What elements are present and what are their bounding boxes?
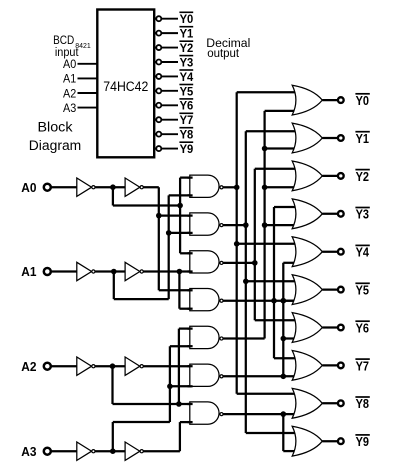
- wire bus 2 to Y5 OR top input: [246, 280, 298, 282]
- junction bus 5 to Y2: [262, 185, 268, 191]
- input terminal A0: [44, 184, 51, 191]
- wire A3-bar horizontal: [113, 421, 170, 423]
- junction A2 inverter tap: [110, 363, 116, 369]
- block output inversion bubble Y0: [156, 16, 161, 21]
- svg-text:Y7: Y7: [180, 113, 194, 127]
- output terminal Y1: [338, 135, 344, 141]
- svg-text:Y0: Y0: [180, 12, 194, 26]
- wire bus 2 to Y9 OR top input: [246, 432, 298, 434]
- wire bus 5 to Y0 OR bottom input: [265, 110, 298, 112]
- junction gate 7 output drop to Y9: [281, 411, 287, 417]
- gate G2 top input stub tip: [188, 214, 193, 216]
- gate G3 top input stub tip: [188, 252, 193, 254]
- wire A2-bar horizontal: [113, 403, 179, 405]
- output label Y1 (active-low): [355, 131, 369, 133]
- svg-text:Block: Block: [38, 119, 73, 134]
- output terminal Y7: [338, 363, 344, 369]
- svg-text:Y9: Y9: [180, 142, 194, 156]
- block output label Y8 (active-low): [179, 127, 193, 129]
- wire A3 to gate 7 bottom input: [180, 421, 191, 423]
- bus 6 (gate 6 term) vertical: [282, 263, 284, 377]
- wire bus 2 to Y1 OR top input: [246, 130, 298, 132]
- OR gate for output Y9: [292, 426, 322, 456]
- gate G5 bottom input stub tip: [188, 345, 193, 347]
- junction gate 3 output on bus 3: [252, 260, 258, 266]
- block input stub A1: [78, 77, 98, 79]
- svg-text:Y1: Y1: [356, 132, 369, 146]
- wire A0 terminal to inverter 1a: [47, 186, 77, 188]
- wire A1-bar to gate 2 bottom input: [169, 232, 191, 234]
- wire bus 6 to Y6 OR bottom input: [283, 337, 298, 339]
- junction A2-bar to gate 7: [176, 401, 182, 407]
- wire A1 inverter 2b output to gate 3 bottom input: [142, 270, 191, 272]
- block output label Y3 (active-low): [179, 55, 193, 57]
- inverter U1a (input A0): [77, 178, 92, 196]
- junction A1 true tap: [177, 269, 183, 275]
- block output inversion bubble Y2: [156, 45, 161, 50]
- input terminal A2: [44, 363, 51, 370]
- svg-text:A1: A1: [63, 72, 76, 86]
- block output wire Y1: [154, 32, 178, 34]
- svg-text:Y8: Y8: [180, 128, 194, 142]
- output label Y0 (active-low): [355, 93, 369, 95]
- svg-text:Y3: Y3: [180, 55, 194, 69]
- wire A0 to gate 4 top input: [159, 289, 191, 291]
- block output label Y1 (active-low): [179, 26, 193, 28]
- gate G4 top input stub tip: [188, 289, 193, 291]
- wire gate 7 output (continues to Y8 OR bottom input): [221, 413, 298, 415]
- inverter U3b (input A2): [125, 357, 140, 375]
- inverter U4b (input A3): [125, 442, 140, 460]
- svg-text:Y2: Y2: [180, 41, 194, 55]
- wire A1 true vertical: [178, 272, 180, 309]
- wire A1 terminal to inverter 2a: [47, 270, 77, 272]
- output terminal Y4: [338, 249, 344, 255]
- output label Y4 (active-low): [355, 244, 369, 246]
- gate G2 bottom input stub tip: [188, 232, 193, 234]
- block input stub A2: [78, 92, 98, 94]
- junction A1-bar to gate 2: [166, 230, 172, 236]
- svg-text:A0: A0: [21, 180, 36, 195]
- OR gate for output Y0: [292, 85, 322, 115]
- junction A3 inverter tap: [110, 448, 116, 454]
- svg-text:A2: A2: [21, 359, 36, 374]
- block output inversion bubble Y5: [156, 88, 161, 93]
- wire bus 3 to Y6 OR top input: [255, 319, 298, 321]
- wire A3 true vertical: [179, 422, 181, 451]
- output terminal Y2: [338, 173, 344, 179]
- svg-text:A0: A0: [63, 57, 76, 71]
- OR gate for output Y3: [292, 199, 322, 229]
- OR gate for output Y6: [292, 313, 322, 343]
- wire A2 inverter 3b output to gate 6 top input: [142, 365, 191, 367]
- svg-text:Y1: Y1: [180, 27, 194, 41]
- svg-text:Y9: Y9: [356, 435, 369, 449]
- svg-text:input: input: [55, 45, 79, 59]
- svg-text:Y4: Y4: [180, 70, 194, 84]
- block output wire Y9: [154, 148, 178, 150]
- junction bus 6 to Y6: [281, 336, 287, 342]
- wire Y6 OR output to terminal: [322, 326, 341, 328]
- wire A0 inverter 1a to inverter 1b: [94, 186, 125, 188]
- wire A1 inverter 2a to inverter 2b: [94, 270, 125, 272]
- block output label Y9 (active-low): [179, 141, 193, 143]
- block output wire Y5: [154, 90, 178, 92]
- wire to Y9 OR bottom input: [283, 450, 298, 452]
- svg-text:Y6: Y6: [356, 321, 369, 335]
- bus 1 (gate 1 term) vertical: [236, 92, 238, 394]
- OR gate for output Y7: [292, 351, 322, 381]
- svg-text:Y4: Y4: [356, 246, 369, 260]
- svg-text:Y2: Y2: [356, 170, 369, 184]
- block output wire Y2: [154, 47, 178, 49]
- wire A3-bar vertical: [169, 346, 171, 422]
- wire A0-bar to gate 3 top input: [180, 252, 191, 254]
- inverter U2b (input A1): [125, 262, 140, 280]
- output label Y7 (active-low): [355, 358, 369, 360]
- wire Y8 OR output to terminal: [322, 402, 341, 404]
- wire A0-bar drop: [112, 187, 114, 205]
- block output label Y7 (active-low): [179, 112, 193, 114]
- gate G1 top input stub tip: [188, 176, 193, 178]
- svg-text:Y5: Y5: [180, 84, 194, 98]
- wire bus 1 to Y4 OR top input: [237, 243, 298, 245]
- wire gate 1 output to bus 1: [221, 186, 236, 188]
- output terminal Y6: [338, 325, 344, 331]
- wire A1 to gate 4 bottom input: [179, 308, 191, 310]
- wire A0-bar horizontal: [113, 204, 180, 206]
- output label Y3 (active-low): [355, 207, 369, 209]
- block output label Y6 (active-low): [179, 98, 193, 100]
- block output inversion bubble Y7: [156, 117, 161, 122]
- junction gate 6 output on bus 6: [281, 374, 287, 380]
- wire Y7 OR output to terminal: [322, 364, 341, 366]
- junction gate 1 output on bus 1: [234, 185, 240, 191]
- inverter U3a (input A2): [77, 357, 92, 375]
- output label Y9 (active-low): [355, 434, 369, 436]
- block output wire Y6: [154, 104, 178, 106]
- svg-text:Y8: Y8: [356, 397, 369, 411]
- wire bus 5 to Y2 OR bottom input: [265, 186, 298, 188]
- output terminal Y3: [338, 211, 344, 217]
- wire A0-bar vertical: [179, 178, 181, 254]
- junction on gate 4 output line at bus 6: [281, 298, 287, 304]
- bus 4 (gate 4 term) vertical: [273, 207, 275, 358]
- wire A1-bar horizontal: [114, 298, 169, 300]
- wire Y9 OR output to terminal: [322, 440, 341, 442]
- wire A1-bar vertical: [168, 195, 170, 299]
- block output inversion bubble Y3: [156, 59, 161, 64]
- wire gate 3 output to bus 3: [221, 262, 255, 264]
- wire A0 to gate 2 top input: [159, 214, 191, 216]
- svg-text:Y6: Y6: [180, 99, 194, 113]
- junction bus 1 to Y4: [234, 241, 240, 247]
- wire bus 6 to Y5 OR bottom input stub: [283, 300, 298, 302]
- wire A1-bar drop: [113, 272, 115, 300]
- NAND gate G3: [190, 251, 219, 273]
- junction A0-bar vertical tap: [177, 203, 183, 209]
- gate G7 top input stub tip: [188, 403, 193, 405]
- svg-text:Y3: Y3: [356, 208, 369, 222]
- svg-text:74HC42: 74HC42: [103, 79, 148, 94]
- NAND gate G6: [190, 364, 219, 386]
- svg-text:A3: A3: [21, 444, 36, 459]
- wire A3-bar to gate 5 bottom input: [170, 345, 191, 347]
- block output inversion bubble Y6: [156, 103, 161, 108]
- output terminal Y9: [338, 438, 344, 444]
- bus 2 (gate 2 term) vertical: [245, 131, 247, 433]
- NAND gate G1: [190, 175, 219, 197]
- wire gate 7 term drop to Y9: [282, 414, 284, 451]
- wire A0 inverter 1b output: [142, 186, 159, 188]
- gate G6 bottom input stub tip: [188, 385, 193, 387]
- svg-text:Y0: Y0: [356, 94, 369, 108]
- output terminal Y0: [338, 97, 344, 103]
- OR gate for output Y8: [292, 388, 322, 418]
- gate G3 bottom input stub tip: [188, 270, 193, 272]
- svg-text:A2: A2: [63, 86, 76, 100]
- gate G1 bottom input stub tip: [188, 194, 193, 196]
- svg-text:A3: A3: [63, 101, 76, 115]
- NAND gate G4: [190, 289, 219, 311]
- junction gate 4 output on bus 4: [271, 298, 277, 304]
- inverter U4a (input A3): [77, 442, 92, 460]
- output label Y5 (active-low): [355, 282, 369, 284]
- wire bus 1 to Y0 OR top input: [237, 91, 298, 93]
- gate G5 top input stub tip: [188, 327, 193, 329]
- wire A2 inverter 3a to inverter 3b: [94, 365, 125, 367]
- gate G6 top input stub tip: [188, 365, 193, 367]
- OR gate for output Y5: [292, 275, 322, 305]
- inverter U1b (input A0): [125, 178, 140, 196]
- wire A2-bar to gate 7 top input: [179, 403, 191, 405]
- block output wire Y0: [154, 18, 178, 20]
- junction A3-bar to gate 6: [167, 384, 173, 390]
- block output label Y4 (active-low): [179, 69, 193, 71]
- bus 3 (gate 3 term) vertical: [254, 169, 256, 321]
- output terminal Y5: [338, 287, 344, 293]
- wire bus 6 to Y4 OR bottom input: [283, 262, 298, 264]
- block output inversion bubble Y4: [156, 74, 161, 79]
- block input stub A0: [78, 63, 98, 65]
- block output label Y2 (active-low): [179, 40, 193, 42]
- svg-text:output: output: [207, 46, 239, 60]
- wire A1-bar to gate 1 bottom input: [169, 194, 191, 196]
- output label Y6 (active-low): [355, 320, 369, 322]
- bus 5 (gate 5 term) vertical: [263, 111, 265, 339]
- NAND gate G2: [190, 213, 219, 235]
- junction bus 6 to Y5: [281, 298, 287, 304]
- output label Y8 (active-low): [355, 396, 369, 398]
- wire bus 4 to Y7 OR top input: [274, 357, 298, 359]
- gate G4 bottom input stub tip: [188, 308, 193, 310]
- wire A2 terminal to inverter 3a: [47, 365, 77, 367]
- wire bus 1 to Y8 OR top input: [237, 393, 298, 395]
- output terminal Y8: [338, 400, 344, 406]
- wire gate 6 output (continues to Y7 OR bottom input): [221, 375, 298, 377]
- block output wire Y8: [154, 133, 178, 135]
- wire A2-bar drop: [111, 366, 113, 404]
- block output inversion bubble Y8: [156, 132, 161, 137]
- wire Y0 OR output to terminal: [322, 99, 341, 101]
- block output wire Y4: [154, 75, 178, 77]
- NAND gate G7: [190, 402, 219, 424]
- wire Y1 OR output to terminal: [322, 137, 341, 139]
- junction A1 inverter tap: [111, 269, 117, 275]
- block output wire Y3: [154, 61, 178, 63]
- block output wire Y7: [154, 119, 178, 121]
- wire bus 5 to Y3 OR bottom input: [265, 224, 298, 226]
- block input stub A3: [78, 107, 98, 109]
- inverter U2a (input A1): [77, 262, 92, 280]
- wire Y5 OR output to terminal: [322, 288, 341, 290]
- junction bus 5 to Y1: [262, 146, 268, 152]
- block diagram IC body 74HC42: [97, 10, 154, 158]
- svg-text:Diagram: Diagram: [29, 138, 82, 153]
- wire bus 4 to Y3 OR top input: [274, 206, 298, 208]
- wire A3-bar to gate 6 bottom input: [170, 385, 191, 387]
- wire A2-bar vertical: [178, 329, 180, 404]
- OR gate for output Y4: [292, 237, 322, 267]
- output label Y2 (active-low): [355, 169, 369, 171]
- wire A3 inverter 4b output: [142, 450, 180, 452]
- input terminal A1: [44, 268, 51, 275]
- wire gate 2 output to bus 2: [221, 224, 246, 226]
- junction A0 inverter tap: [110, 184, 116, 190]
- wire bus 3 to Y2 OR top input: [255, 168, 298, 170]
- OR gate for output Y2: [292, 161, 322, 191]
- svg-text:Y7: Y7: [356, 359, 369, 373]
- wire Y2 OR output to terminal: [322, 175, 341, 177]
- junction bus 2 to Y5: [243, 279, 249, 285]
- wire Y4 OR output to terminal: [322, 251, 341, 253]
- wire A3-bar rise: [112, 422, 114, 451]
- wire A0 true vertical (feeds gates 2 and 4): [158, 187, 160, 290]
- block output inversion bubble Y9: [156, 146, 161, 151]
- junction A0 to gate 2: [156, 213, 162, 219]
- wire Y3 OR output to terminal: [322, 213, 341, 215]
- wire A3 inverter 4a to inverter 4b: [94, 450, 125, 452]
- wire bus 5 to Y1 OR bottom input: [265, 147, 298, 149]
- svg-text:Y5: Y5: [356, 284, 369, 298]
- gate G7 bottom input stub tip: [188, 421, 193, 423]
- block output inversion bubble Y1: [156, 31, 161, 36]
- wire gate 5 output to bus 5: [221, 337, 264, 339]
- NAND gate G5: [190, 326, 219, 348]
- wire gate 4 output (continues to Y5 OR bottom input): [221, 300, 298, 302]
- wire A3 terminal to inverter 4a: [47, 450, 77, 452]
- wire A2-bar to gate 5 top input: [179, 327, 191, 329]
- junction gate 2 output on bus 2: [243, 222, 249, 228]
- block output label Y5 (active-low): [179, 84, 193, 86]
- block output label Y0 (active-low): [179, 11, 193, 13]
- svg-text:A1: A1: [21, 264, 36, 279]
- wire A0-bar to gate 1 top input: [180, 176, 191, 178]
- input terminal A3: [44, 448, 51, 455]
- junction bus 5 to Y3: [262, 222, 268, 228]
- OR gate for output Y1: [292, 123, 322, 153]
